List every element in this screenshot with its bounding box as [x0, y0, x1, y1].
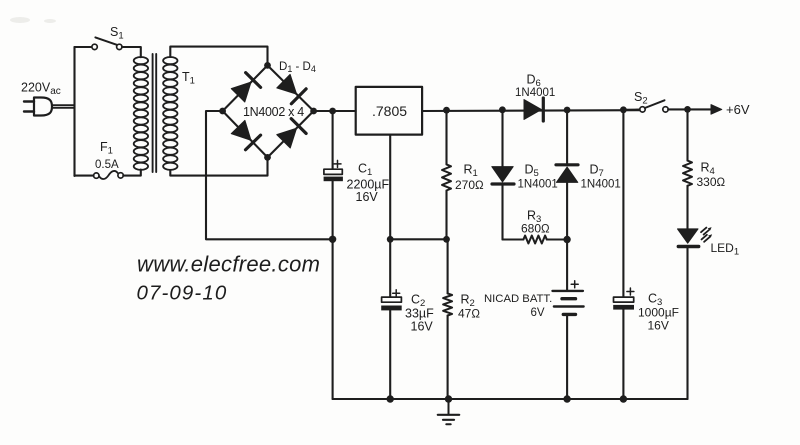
svg-text:270Ω: 270Ω — [455, 178, 484, 192]
svg-text:330Ω: 330Ω — [697, 175, 726, 189]
svg-text:47Ω: 47Ω — [458, 307, 480, 321]
transformer T1 core — [153, 54, 157, 172]
label S1 — [110, 25, 124, 42]
diode D5 — [492, 110, 514, 240]
svg-text:D5: D5 — [525, 163, 539, 180]
svg-text:D7: D7 — [590, 163, 604, 180]
junction rail at C3 — [620, 106, 627, 113]
junction at C1 top rail — [329, 108, 336, 115]
plug P1 (220V mains) — [24, 98, 75, 116]
label 1N4002 x 4 — [243, 105, 304, 119]
svg-text:6V: 6V — [531, 307, 545, 319]
svg-text:S1: S1 — [110, 25, 124, 42]
bottom rail wire — [333, 398, 688, 400]
label C3 1000uF 16V — [638, 292, 679, 333]
label C1 2200uF 16V — [347, 162, 390, 205]
diode D3 (bridge bottom-left) — [231, 120, 261, 150]
label 220Vac — [21, 81, 61, 98]
bridge rectifier frame D1-D4 — [223, 65, 314, 157]
svg-text:220Vac: 220Vac — [21, 81, 61, 98]
label R3 680ohm — [521, 209, 550, 236]
junction bridge left — [219, 108, 226, 115]
label D7 1N4001 — [581, 163, 621, 191]
svg-text:1N4001: 1N4001 — [581, 179, 621, 191]
svg-text:07-09-10: 07-09-10 — [137, 282, 228, 305]
capacitor C1 — [324, 111, 343, 399]
transformer T1 primary winding — [134, 57, 148, 170]
wire bridge negative to lower rail — [206, 111, 333, 239]
label T1 — [182, 70, 195, 87]
LED light arrows — [701, 227, 712, 242]
wire gnd pin to R1/R2 node — [390, 238, 446, 240]
junction output node — [684, 106, 691, 113]
junction bridge bottom — [264, 154, 271, 161]
junction R1/R2 node — [443, 236, 450, 243]
wire regulator ground pin — [389, 135, 391, 399]
svg-text:NICAD BATT.: NICAD BATT. — [484, 293, 552, 305]
label D6 1N4001 — [515, 73, 555, 100]
label C2 33uF 16V — [405, 293, 434, 334]
resistor R3 — [503, 236, 568, 244]
svg-text:0.5A: 0.5A — [95, 159, 119, 171]
label LED1 — [711, 241, 740, 258]
label S2 — [634, 90, 648, 107]
label D5 1N4001 — [518, 163, 558, 191]
wire mains bottom to fuse — [75, 175, 94, 177]
junction bottom at R2/ground — [445, 395, 452, 402]
capacitor C2 — [381, 290, 402, 311]
label R1 270ohm — [455, 163, 484, 193]
svg-text:LED1: LED1 — [711, 241, 740, 258]
svg-text:33µF: 33µF — [405, 307, 434, 321]
capacitor C3 — [613, 110, 634, 399]
svg-text:D1 - D4: D1 - D4 — [279, 61, 316, 74]
wire bridge positive to regulator input — [314, 110, 356, 112]
svg-text:1N4001: 1N4001 — [518, 179, 558, 191]
junction rail at D5 — [499, 106, 506, 113]
junction bottom at C3 — [620, 395, 627, 402]
svg-text:www.elecfree.com: www.elecfree.com — [137, 252, 320, 277]
transformer T1 secondary winding — [163, 57, 177, 170]
diode D4 (bridge bottom-right) — [276, 119, 306, 149]
diode D7 — [556, 110, 578, 291]
wire secondary bottom to bridge — [170, 160, 267, 176]
junction bottom at battery — [563, 395, 570, 402]
diode D2 (bridge top-right) — [276, 74, 306, 104]
svg-text:T1: T1 — [182, 70, 195, 87]
svg-text:1N4001: 1N4001 — [515, 87, 555, 99]
diode D1 (bridge top-left) — [231, 73, 261, 103]
output arrow +6V — [688, 105, 722, 115]
wire left vertical (mains) — [73, 47, 75, 176]
junction gnd pin mid — [387, 236, 394, 243]
regulator U1 7805 — [356, 87, 422, 135]
svg-text:16V: 16V — [356, 190, 379, 204]
svg-text:+6V: +6V — [726, 102, 750, 117]
svg-text:1N4002 x 4: 1N4002 x 4 — [243, 105, 304, 119]
svg-text:R1: R1 — [464, 163, 478, 180]
svg-text:16V: 16V — [648, 319, 669, 333]
resistor R4 — [683, 109, 692, 228]
wire top primary to S1 — [75, 46, 93, 48]
wire secondary top to bridge — [170, 47, 267, 63]
label D1 - D4 — [279, 61, 316, 74]
junction bridge top — [264, 62, 271, 69]
fuse F1 — [94, 171, 124, 179]
svg-text:16V: 16V — [411, 320, 434, 334]
svg-text:.7805: .7805 — [372, 103, 407, 119]
wire S1 to transformer primary — [122, 47, 141, 57]
svg-text:C1: C1 — [358, 162, 372, 179]
label F1 0.5A — [95, 140, 119, 171]
svg-text:F1: F1 — [100, 140, 113, 157]
diode D6 — [524, 98, 543, 121]
switch S2 — [623, 100, 668, 112]
label R4 330ohm — [697, 161, 726, 190]
label 7805 — [372, 103, 407, 119]
battery BT1 NICAD — [553, 281, 584, 399]
wire S2 to output node — [668, 108, 687, 110]
junction bridge right — [310, 108, 317, 115]
ground symbol — [438, 399, 459, 424]
LED LED1 — [678, 229, 699, 399]
junction rail at R1 — [443, 107, 450, 114]
junction negative rail at C1 — [329, 236, 336, 243]
wire fuse to primary bottom — [123, 170, 141, 176]
junction rail at D7 — [564, 107, 571, 114]
resistor R1 — [442, 110, 451, 239]
label +6V — [726, 102, 750, 117]
svg-text:680Ω: 680Ω — [521, 222, 550, 236]
svg-text:1000µF: 1000µF — [638, 306, 679, 320]
svg-text:S2: S2 — [634, 90, 648, 107]
wire regulator output — [422, 109, 640, 112]
resistor R2 — [443, 239, 452, 399]
label R2 47ohm — [458, 293, 480, 321]
junction R3/battery — [563, 236, 570, 243]
label NICAD BATT. 6V — [484, 293, 552, 319]
junction bottom at gnd pin — [387, 395, 394, 402]
switch S1 — [92, 37, 122, 49]
scan artifact faint smudge top left — [10, 17, 56, 23]
